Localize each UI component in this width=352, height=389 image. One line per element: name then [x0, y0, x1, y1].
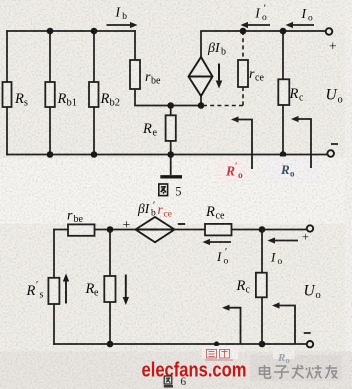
terminal - (fig5 bottom) [327, 150, 334, 157]
node dot fig6 bottom x216 [214, 341, 219, 346]
wire bottom rail (fig6) [54, 343, 307, 345]
wire diamond top to rail [201, 31, 326, 57]
current arrow Io (fig5) [286, 6, 315, 28]
resistor Rc (fig6) [236, 273, 267, 298]
node dot top rail x94 [91, 28, 98, 35]
resistor rce (fig5, dashed leads) [201, 31, 264, 106]
resistor Re (fig6) [85, 276, 116, 302]
terminal - (fig6) [307, 341, 313, 347]
resistor Re (fig5) [142, 115, 176, 141]
caption fig6: glyph TU [164, 376, 173, 387]
wire left column (fig6) [53, 230, 55, 345]
wire rbe branch down [135, 31, 201, 106]
node dot bottom rail x50 [47, 151, 54, 158]
arrow of current source [216, 64, 223, 89]
node dot bottom rail x94 [91, 151, 98, 158]
controlled source beta-Ib (fig5) [189, 57, 213, 96]
arrow indicator R'o [231, 116, 252, 169]
current arrow Io' (fig6) [203, 239, 232, 267]
ground [160, 155, 182, 177]
node dot diamond bottom [198, 102, 205, 109]
watermark CJK shao [306, 365, 322, 378]
wire Re branch [170, 106, 172, 155]
wire Rb2 branch [93, 31, 95, 155]
resistor R's [26, 278, 60, 304]
arrow up beside R's [63, 274, 69, 304]
label Uo (fig5) [326, 87, 343, 106]
node dot base node [167, 102, 174, 109]
label R'o (red) [225, 162, 243, 181]
wire left column [6, 31, 8, 155]
node dot rail x243 [240, 28, 247, 35]
watermark CJK fa [292, 365, 304, 379]
current arrow Io (fig6) [268, 237, 299, 267]
arrow indicator into Re/Rce node [222, 305, 241, 344]
resistor Rce (fig6) [205, 204, 232, 235]
patch behind leftover labels [202, 346, 238, 359]
current arrow Io' (fig5) [241, 4, 271, 29]
resistor Rb1 [45, 82, 77, 109]
resistor Rb2 [89, 82, 120, 109]
patch behind R'o [216, 157, 248, 183]
watermark band [0, 352, 352, 389]
wire Rc branch (fig5) [282, 31, 284, 155]
watermark CJK dian [260, 365, 271, 378]
terminal + (fig5 top) [326, 28, 333, 35]
wire top rail left segment [7, 30, 135, 32]
node dot bottom rail x283 [280, 151, 287, 158]
caption fig5: glyph TU [159, 184, 168, 196]
arrow down beside Re [123, 275, 129, 306]
wire bottom rail (fig5) [7, 154, 327, 156]
controlled source beta-Ib-rce diamond (fig6) [136, 217, 175, 242]
resistor rbe (fig6) [67, 209, 95, 236]
current arrow Ib [107, 5, 138, 29]
resistor Rc (fig5) [278, 79, 304, 105]
node dot fig6 collector [259, 226, 266, 233]
wire top rail (fig6) [54, 229, 307, 231]
resistor rbe (fig5) [130, 60, 161, 89]
wire Rc branch (fig6) [261, 230, 263, 345]
leftover red mark (fan/ti) [205, 350, 233, 361]
node dot fig6 bottom x110 [107, 341, 114, 348]
node dot top rail x50 [47, 28, 54, 35]
arrow indicator Ro [291, 116, 311, 168]
terminal + (fig6) [307, 225, 313, 231]
patch behind Ro [264, 157, 322, 184]
watermark CJK you [326, 365, 338, 378]
label beta-Ib [207, 41, 226, 58]
resistor Rs [3, 82, 29, 109]
node dot fig6 bottom x262 [259, 341, 266, 348]
label Uo (fig6) [304, 283, 321, 302]
wire diamond bottom [200, 96, 202, 106]
wire Rb1 branch [49, 31, 51, 155]
node dot rail x283 [280, 28, 287, 35]
label beta-Ib-rce [137, 201, 172, 220]
label Ro (navy) [280, 162, 295, 179]
node dot fig6 base [107, 226, 114, 233]
leftover gray label Ro [277, 352, 290, 365]
polarity - of source [178, 223, 185, 225]
arrow indicator into Rc (fig6) [272, 302, 295, 344]
node dot emitter rail [167, 151, 174, 158]
wire Re branch (fig6) [109, 230, 111, 345]
watermark CJK zi [274, 366, 289, 378]
